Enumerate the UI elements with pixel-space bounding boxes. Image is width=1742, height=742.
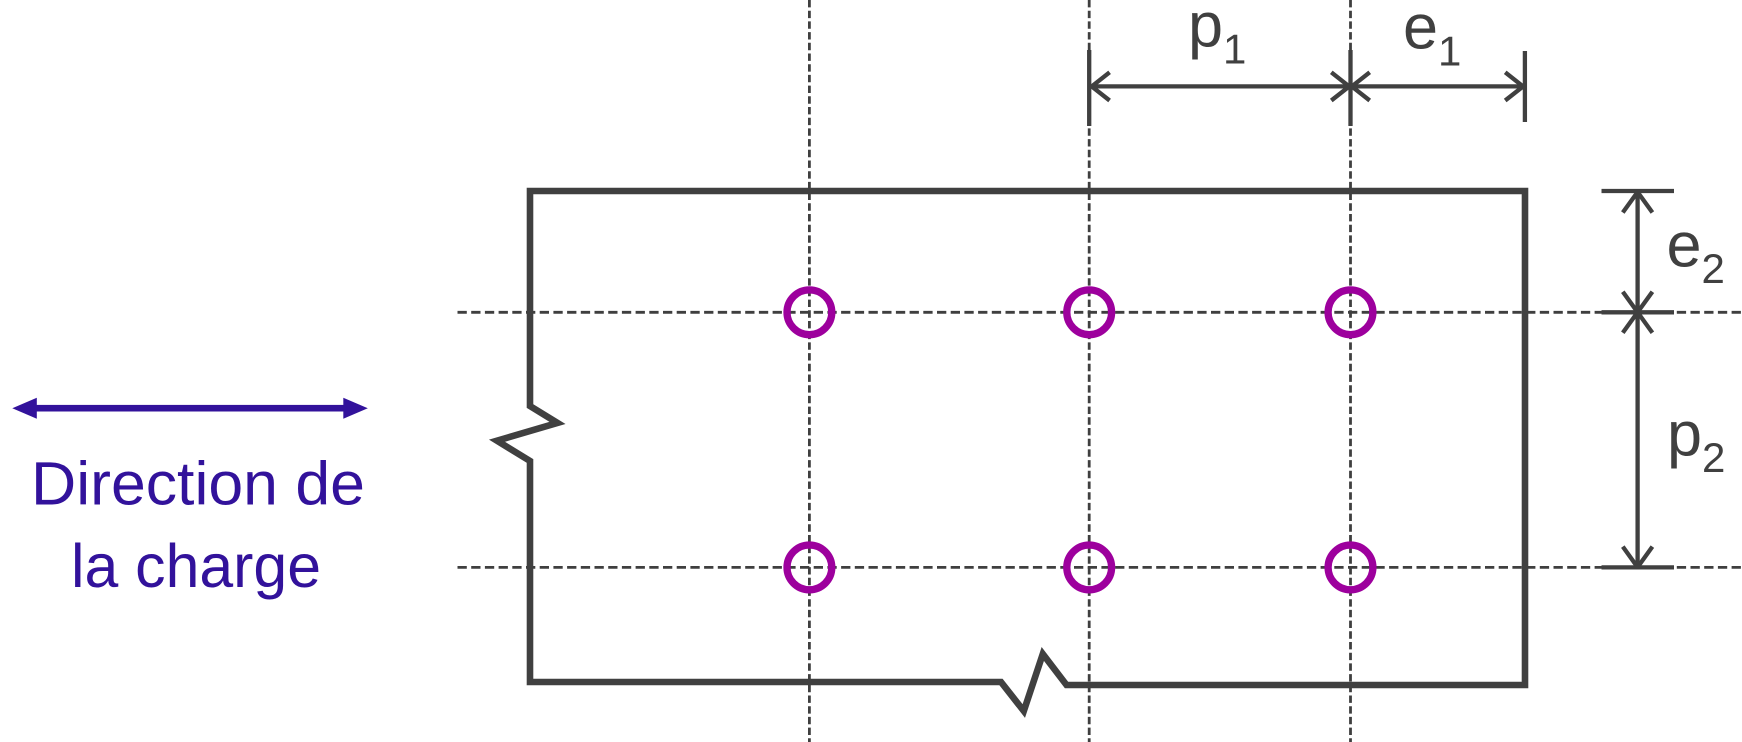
- centerline horizontal row 2: [458, 566, 1742, 569]
- arrowhead e2 bottom: [1623, 292, 1653, 313]
- arrowhead p2 top: [1623, 312, 1653, 333]
- arrowhead e2 top: [1623, 192, 1653, 213]
- centerline vertical column 2: [1088, 0, 1091, 742]
- arrowhead p2 bottom: [1623, 547, 1653, 568]
- arrowhead e1 right: [1505, 72, 1523, 100]
- dimension p1 line: [1091, 84, 1349, 88]
- arrowhead e1 left: [1352, 72, 1370, 100]
- load direction double arrow: [12, 398, 368, 419]
- bolt hole row1 col3: [1328, 290, 1373, 335]
- dimension p2 extension tick bottom: [1602, 565, 1675, 569]
- plate outline with break lines: [497, 191, 1525, 711]
- svg-text:e2: e2: [1667, 211, 1725, 293]
- svg-text:p2: p2: [1667, 400, 1725, 482]
- dimension e2 line: [1635, 192, 1639, 311]
- svg-text:Direction de: Direction de: [31, 449, 365, 517]
- arrowhead p1 left: [1092, 72, 1110, 100]
- svg-text:la charge: la charge: [71, 532, 321, 600]
- dimension e1 extension tick right: [1523, 51, 1527, 122]
- dimension e2 extension tick top: [1602, 189, 1675, 193]
- bolt hole row2 col1: [787, 545, 832, 590]
- centerline horizontal row 1: [458, 311, 1742, 314]
- dimension p1 extension tick left: [1087, 50, 1091, 126]
- bolt hole row1 col1: [787, 290, 832, 335]
- dimension tick middle (p1/e1): [1348, 50, 1352, 126]
- svg-text:e1: e1: [1403, 0, 1461, 75]
- dimension p2 line: [1635, 314, 1639, 567]
- arrowhead p1 right: [1331, 72, 1349, 100]
- centerline vertical column 3: [1349, 0, 1352, 742]
- bolt hole row2 col2: [1067, 545, 1112, 590]
- bolt hole row2 col3: [1328, 545, 1373, 590]
- centerline vertical column 1: [808, 0, 811, 742]
- dimension e1 line: [1352, 84, 1523, 88]
- dimension tick middle (e2/p2): [1602, 310, 1675, 314]
- svg-text:p1: p1: [1188, 0, 1246, 73]
- bolt hole row1 col2: [1067, 290, 1112, 335]
